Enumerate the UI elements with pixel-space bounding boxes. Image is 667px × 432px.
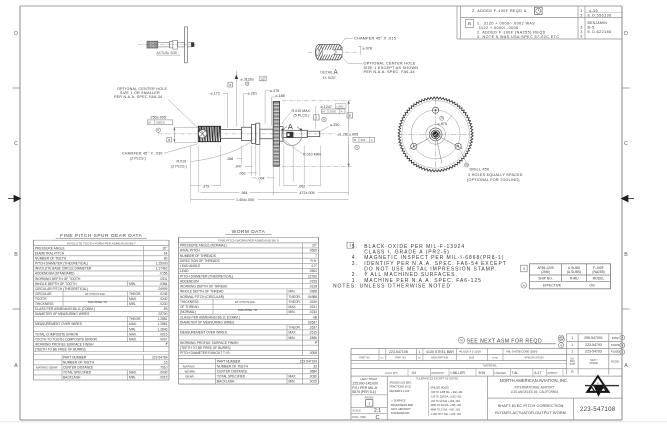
- svg-text:⌀.078: ⌀.078: [363, 47, 372, 51]
- svg-text:DIAMETER OF MEASURING WIRES: DIAMETER OF MEASURING WIRES: [35, 312, 90, 316]
- svg-text:.2596: .2596: [309, 336, 317, 340]
- svg-text:1. .3120 +.0000/-.0002 WAS: 1. .3120 +.0000/-.0002 WAS: [477, 22, 535, 26]
- svg-text:PART NUMBER: PART NUMBER: [63, 356, 87, 360]
- svg-text:.0008: .0008: [309, 351, 317, 355]
- svg-text:DWG. SIZE: DWG. SIZE: [352, 415, 366, 419]
- svg-text:MATERIAL: MATERIAL: [483, 364, 497, 368]
- svg-text:SHAFT-ELEC PITCH CORRECTION: SHAFT-ELEC PITCH CORRECTION: [498, 403, 564, 408]
- svg-text:INTERNATIONAL AIRPORT: INTERNATIONAL AIRPORT: [515, 386, 555, 390]
- svg-text:255-547001: 255-547001: [584, 336, 603, 340]
- svg-text:.0234: .0234: [309, 310, 317, 314]
- svg-text:MIN.: MIN.: [129, 302, 136, 306]
- svg-text:16: 16: [164, 361, 168, 365]
- svg-text:WORKING DEPTH OF TOOTH: WORKING DEPTH OF TOOTH: [35, 277, 81, 281]
- svg-text:33/64 TO 3/4 DIA. +.005,-.: 33/64 TO 3/4 DIA. +.005,-.001: [431, 404, 462, 407]
- svg-text:THRU: THRU: [569, 276, 579, 280]
- svg-text:C: C: [376, 415, 380, 421]
- svg-text:∜: ∜: [315, 341, 317, 345]
- svg-text:⌀.1247: ⌀.1247: [321, 105, 332, 109]
- svg-text:ADDENDUM (STANDARD): ADDENDUM (STANDARD): [35, 272, 74, 276]
- svg-text:A: A: [341, 110, 343, 114]
- svg-text:A: A: [14, 363, 18, 369]
- svg-text:.0368: .0368: [309, 290, 317, 294]
- svg-text:1: 1: [571, 336, 573, 340]
- svg-text:⌀.875: ⌀.875: [438, 122, 447, 126]
- svg-text:PITCH DIAMETER RUNOUT: PITCH DIAMETER RUNOUT T.I.R.: [180, 351, 231, 355]
- svg-text:MATING: MATING: [183, 364, 195, 368]
- svg-text:1: 1: [368, 401, 370, 405]
- svg-text:PART NO.: PART NO.: [359, 357, 371, 360]
- svg-text:MAX.: MAX.: [129, 337, 137, 341]
- svg-text:ROTARY-ACTUATOR-OUTPUT WORM: ROTARY-ACTUATOR-OUTPUT WORM: [495, 410, 566, 415]
- svg-text:.0030: .0030: [309, 375, 317, 379]
- svg-text:1.17462: 1.17462: [156, 267, 168, 271]
- svg-text:B: B: [624, 252, 628, 258]
- svg-text:SHIP: SHIP: [570, 364, 576, 366]
- svg-text:∜: ∜: [165, 342, 167, 346]
- svg-text:.2615: .2615: [309, 331, 317, 335]
- svg-text:1: 1: [571, 343, 573, 347]
- svg-text:TOTAL COMPOSITE ERROR: TOTAL COMPOSITE ERROR: [35, 332, 79, 336]
- svg-text:MAX.: MAX.: [129, 322, 137, 326]
- svg-text:.0318: .0318: [309, 285, 317, 289]
- svg-text:B: B: [229, 83, 231, 87]
- svg-text:.04: .04: [411, 371, 416, 375]
- svg-text:5.: 5.: [352, 244, 358, 250]
- svg-text:(2 PLCS.): (2 PLCS.): [171, 165, 187, 169]
- svg-text:20°: 20°: [312, 244, 318, 248]
- svg-text:MIN.: MIN.: [129, 327, 136, 331]
- svg-text:4B: 4B: [313, 315, 317, 319]
- svg-text:.0005: .0005: [329, 110, 336, 114]
- svg-text:223-54784: 223-54784: [152, 356, 168, 360]
- svg-text:WORKING DEPTH OF THREAD: WORKING DEPTH OF THREAD: [180, 285, 228, 289]
- svg-text:THEOR.: THEOR.: [289, 295, 301, 299]
- svg-text:B-5: B-5: [588, 26, 595, 30]
- svg-text:49/64 TO 1" DIA. +.007,-.0: 49/64 TO 1" DIA. +.007,-.001: [431, 409, 461, 412]
- svg-text:.3684: .3684: [309, 370, 317, 374]
- svg-text:223-54793: 223-54793: [585, 350, 602, 354]
- svg-text:.062: .062: [239, 171, 246, 175]
- svg-text:DRILLED HOLES: DRILLED HOLES: [431, 388, 450, 390]
- svg-text:.0240: .0240: [159, 297, 167, 301]
- svg-text:1: 1: [571, 350, 573, 354]
- svg-text:ANGLES ±1/2 DEG.: ANGLES ±1/2 DEG.: [390, 381, 413, 384]
- svg-text:+.0000: +.0000: [336, 106, 344, 108]
- svg-text:.04988: .04988: [307, 295, 317, 299]
- svg-text:R.015 MAX.: R.015 MAX.: [292, 109, 311, 113]
- svg-text:MAX.: MAX.: [129, 332, 137, 336]
- svg-text:D: D: [14, 31, 18, 37]
- svg-text:TOTAL SPECIFIED: TOTAL SPECIFIED: [63, 371, 92, 375]
- svg-text:PER N.A.A. SPEC. FA6-34: PER N.A.A. SPEC. FA6-34: [364, 70, 415, 74]
- svg-text:4B: 4B: [164, 307, 168, 311]
- svg-text:THICKNESS: THICKNESS: [35, 302, 54, 306]
- svg-text:PER N.A.A. SPEC FA6-34: PER N.A.A. SPEC FA6-34: [114, 95, 162, 99]
- svg-text:1: 1: [419, 350, 421, 354]
- svg-text:C: C: [14, 141, 18, 147]
- svg-text:(NORMAL): (NORMAL): [180, 310, 196, 314]
- svg-text:WORKING PROFILE SURFACE FIN: WORKING PROFILE SURFACE FINISH: [35, 342, 94, 346]
- svg-text:(NA255): (NA255): [592, 270, 604, 274]
- svg-text:ROUGHNESS PER: ROUGHNESS PER: [391, 404, 413, 407]
- svg-text:.22760: .22760: [307, 274, 317, 278]
- svg-text:CLASS PER ASME/ANSI B6.11: CLASS PER ASME/ANSI B6.11 [COMM.]: [180, 315, 240, 319]
- svg-text:ON: ON: [590, 284, 596, 288]
- svg-text:⌀.375: ⌀.375: [270, 89, 279, 93]
- svg-text:N: N: [523, 283, 525, 287]
- svg-text:.0230: .0230: [159, 302, 167, 306]
- svg-text:B: B: [168, 138, 170, 142]
- svg-text:MATING GEAR: MATING GEAR: [36, 366, 58, 370]
- svg-text:(OPTIONAL FOR TOOLING): (OPTIONAL FOR TOOLING): [467, 178, 520, 182]
- svg-text:CLASS PER ASME/ANSI B6.11: CLASS PER ASME/ANSI B6.11 [COMM.]: [35, 307, 95, 311]
- svg-text:NO.: NO.: [570, 358, 574, 360]
- svg-text:MACHINE TO: MACHINE TO: [88, 300, 108, 304]
- svg-text:C: C: [624, 141, 628, 147]
- svg-text:MAX.: MAX.: [289, 305, 297, 309]
- svg-text:PRESSURE ANGLE (NORMAL): PRESSURE ANGLE (NORMAL): [180, 244, 227, 248]
- svg-text:6-17: 6-17: [535, 371, 542, 375]
- svg-text:NAT'L AIRCRAFT: NAT'L AIRCRAFT: [391, 408, 411, 411]
- svg-text:5/16: 5/16: [479, 371, 486, 375]
- svg-text:20°: 20°: [163, 246, 169, 250]
- svg-text:MIL-S-6758 COND (D)(N): MIL-S-6758 COND (D)(N): [507, 350, 538, 354]
- svg-text:MIN.: MIN.: [129, 282, 136, 286]
- svg-text:R.010 MAX.: R.010 MAX.: [303, 153, 322, 157]
- svg-text:4.2°: 4.2°: [311, 264, 318, 268]
- svg-text:3.: 3.: [352, 261, 358, 267]
- svg-text:CHAMFER 45° X .015: CHAMFER 45° X .015: [354, 37, 396, 41]
- svg-text:THEOR.: THEOR.: [289, 326, 301, 330]
- svg-text:.0015: .0015: [159, 376, 167, 380]
- svg-text:.7510: .7510: [159, 366, 167, 370]
- svg-text:NUMBER OF TEETH: NUMBER OF TEETH: [35, 257, 67, 261]
- svg-text:CIRCULAR: CIRCULAR: [35, 292, 52, 296]
- svg-text:125,000-145,000: 125,000-145,000: [352, 381, 378, 385]
- svg-text:LOS ANGELES 45, CALIFORNIA: LOS ANGELES 45, CALIFORNIA: [511, 390, 559, 394]
- svg-text:.984: .984: [241, 191, 248, 195]
- svg-text:NOTES: UNLESS OTHERWISE NOTED: NOTES: UNLESS OTHERWISE NOTED: [333, 284, 451, 290]
- svg-text:3: 3: [580, 9, 583, 13]
- svg-text:3: 3: [580, 14, 583, 18]
- svg-text:SPECIFICATION: SPECIFICATION: [525, 357, 544, 360]
- svg-text:.0245: .0245: [159, 292, 167, 296]
- svg-text:⌀.188: ⌀.188: [275, 94, 284, 98]
- svg-text:.094: .094: [258, 176, 265, 180]
- svg-text:BENJAMIN: BENJAMIN: [588, 21, 608, 25]
- svg-text:N: N: [466, 164, 468, 167]
- svg-text:THEOR.: THEOR.: [129, 317, 141, 321]
- svg-text:THICKNESS: THICKNESS: [180, 300, 199, 304]
- svg-text:AT PITCH DIA.: AT PITCH DIA.: [85, 292, 106, 296]
- svg-text:.234 TO 1/2 DIA. +.004,-.0: .234 TO 1/2 DIA. +.004,-.001: [431, 400, 461, 403]
- svg-text:.0005 A: .0005 A: [156, 121, 165, 125]
- svg-text:BACKLASH: BACKLASH: [63, 376, 81, 380]
- svg-text:F100D: F100D: [611, 350, 621, 354]
- svg-text:DETAIL: DETAIL: [320, 71, 333, 75]
- svg-text:TOLERANCES EXCEPT AS NOTED: TOLERANCES EXCEPT AS NOTED: [416, 376, 459, 380]
- svg-text:⌀.172: ⌀.172: [211, 92, 220, 96]
- svg-text:CHECKER: CHECKER: [494, 372, 506, 375]
- svg-text:⌀1.281±.005: ⌀1.281±.005: [338, 132, 359, 136]
- svg-text:LEAD: LEAD: [180, 269, 189, 273]
- svg-text:#1-5/16 X 1-11/16: #1-5/16 X 1-11/16: [460, 350, 482, 354]
- svg-text:NORTH AMERICAN AVIATION, IN: NORTH AMERICAN AVIATION, INC.: [500, 378, 568, 383]
- svg-text:3. NOTE 5 WAS USA SPEC 57: 3. NOTE 5 WAS USA SPEC 57-02C ETC: [477, 35, 560, 39]
- svg-text:.02700: .02700: [158, 312, 168, 316]
- svg-text:⌀.3120±: ⌀.3120±: [241, 77, 254, 81]
- svg-text:CHAMFER 45° X .030: CHAMFER 45° X .030: [122, 151, 163, 155]
- svg-text:WORM: WORM: [185, 369, 196, 373]
- svg-text:NO.: NO.: [418, 357, 422, 359]
- svg-text:P.S.I PER MIL-H: P.S.I PER MIL-H: [352, 386, 378, 390]
- svg-text:2. ADDED F-100F REQD &: 2. ADDED F-100F REQD &: [472, 9, 527, 13]
- svg-text:223-547108: 223-547108: [389, 350, 408, 354]
- svg-text:.472±.005: .472±.005: [299, 191, 315, 195]
- svg-text:WORM DATA: WORM DATA: [232, 229, 266, 235]
- svg-text:N: N: [323, 117, 325, 121]
- svg-text:(2M6): (2M6): [541, 270, 550, 274]
- svg-text:E.O.622186: E.O.622186: [588, 30, 612, 34]
- svg-text:CIRCULAR PITCH (THEORETICAL): CIRCULAR PITCH (THEORETICAL): [35, 287, 88, 291]
- svg-text:1-1/64 TO 2" DIA. +.010,-.: 1-1/64 TO 2" DIA. +.010,-.001: [431, 413, 462, 416]
- svg-text:32: 32: [313, 364, 317, 368]
- svg-text:ACTUAL SIZE: ACTUAL SIZE: [157, 51, 179, 55]
- svg-text:MAX.: MAX.: [289, 331, 297, 335]
- svg-text:PITCH DIAMETER (THEORETICAL): PITCH DIAMETER (THEORETICAL): [35, 262, 88, 266]
- svg-text:1.404±.005: 1.404±.005: [236, 198, 254, 202]
- svg-text:3: 3: [580, 30, 583, 34]
- svg-text:(TEETH TO BE FREE OF BURR: (TEETH TO BE FREE OF BURRS): [35, 347, 86, 351]
- svg-text:.0500: .0500: [309, 269, 317, 273]
- svg-text:1.2861: 1.2861: [158, 322, 168, 326]
- svg-text:DIRECTION OF THREADS: DIRECTION OF THREADS: [180, 259, 220, 263]
- svg-text:223-547108: 223-547108: [580, 406, 616, 413]
- svg-text:A: A: [371, 138, 373, 142]
- svg-text:4X SIZE: 4X SIZE: [322, 76, 336, 80]
- svg-text:SIZE: SIZE: [469, 357, 475, 360]
- svg-text:2. ADDED F-100F (NA255) RE: 2. ADDED F-100F (NA255) REQD: [477, 30, 546, 34]
- svg-text:A: A: [624, 363, 628, 369]
- svg-text:N: N: [441, 117, 443, 120]
- svg-text:F00F: F00F: [612, 336, 619, 340]
- svg-text:N: N: [560, 336, 562, 340]
- svg-text:MIN.: MIN.: [289, 380, 296, 384]
- svg-text:CENTER DISTANCE: CENTER DISTANCE: [217, 370, 248, 374]
- svg-text:.047: .047: [235, 165, 242, 169]
- svg-text:THEOR.: THEOR.: [289, 300, 301, 304]
- svg-text:1.25000: 1.25000: [156, 262, 168, 266]
- svg-text:B: B: [349, 113, 351, 117]
- svg-text:1.2843: 1.2843: [158, 327, 168, 331]
- svg-text:1.2881: 1.2881: [158, 317, 168, 321]
- svg-text:NUMBER OF THREADS: NUMBER OF THREADS: [180, 254, 217, 258]
- svg-text:4-30: 4-30: [589, 9, 598, 13]
- svg-text:WORKING PROFILE SURFACE FIN: WORKING PROFILE SURFACE FINISH: [180, 341, 239, 345]
- svg-text:T.AL: T.AL: [512, 371, 519, 375]
- svg-text:MIN.: MIN.: [289, 310, 296, 314]
- svg-text:DECIMALS ±.010: DECIMALS ±.010: [390, 390, 410, 393]
- svg-text:.0159: .0159: [309, 279, 317, 283]
- svg-text:.3122 +.0000/-.0005: .3122 +.0000/-.0005: [477, 26, 519, 30]
- svg-text:.04909: .04909: [158, 287, 168, 291]
- svg-text:.02667: .02667: [307, 320, 317, 324]
- svg-text:MIN.: MIN.: [289, 290, 296, 294]
- svg-text:AT PITCH DIA.: AT PITCH DIA.: [235, 300, 256, 304]
- svg-text:I-MILLER: I-MILLER: [451, 371, 466, 375]
- svg-text:PART NO.: PART NO.: [395, 357, 407, 360]
- svg-text:N: N: [356, 145, 358, 149]
- svg-text:MIN.: MIN.: [289, 336, 296, 340]
- svg-text:.0015: .0015: [309, 380, 317, 384]
- svg-text:DIAMETRAL PITCH: DIAMETRAL PITCH: [35, 252, 65, 256]
- svg-text:FINE PITCH WORM PER ASME/A: FINE PITCH WORM PER ASME/ANSI B6.9: [218, 238, 278, 242]
- svg-text:4: 4: [523, 267, 525, 271]
- svg-text:E.O.556136: E.O.556136: [588, 14, 612, 18]
- svg-text:NUMBER OF TEETH: NUMBER OF TEETH: [217, 364, 249, 368]
- svg-text:(& SUBS): (& SUBS): [567, 270, 581, 274]
- svg-text:HEAT TREAT: HEAT TREAT: [361, 377, 378, 381]
- svg-text:.136 TO .228 DIA. +.003,-.: .136 TO .228 DIA. +.003,-.001: [431, 395, 462, 398]
- svg-text:MEASUREMENT OVER WIRES: MEASUREMENT OVER WIRES: [180, 331, 228, 335]
- svg-text:CALC WT.: CALC WT.: [385, 371, 398, 375]
- svg-text:N: N: [560, 343, 562, 347]
- svg-text:DRAWN BY: DRAWN BY: [432, 372, 445, 375]
- svg-text:B: B: [14, 252, 18, 258]
- svg-text:NORMAL PITCH (CIRCULAR): NORMAL PITCH (CIRCULAR): [180, 295, 224, 299]
- svg-text:BACKLASH: BACKLASH: [217, 380, 235, 384]
- svg-text:THEOR.: THEOR.: [129, 292, 141, 296]
- svg-text:R.010: R.010: [177, 160, 187, 164]
- svg-text:TOOTH TO TOOTH COMPOSITE E: TOOTH TO TOOTH COMPOSITE ERROR: [35, 337, 97, 341]
- svg-text:.0500: .0500: [309, 249, 317, 253]
- svg-text:EFFECTIVE: EFFECTIVE: [543, 284, 562, 288]
- svg-text:MAX.: MAX.: [129, 297, 137, 301]
- svg-text:SHIP NO.: SHIP NO.: [538, 276, 552, 280]
- svg-text:NUMBER OF TEETH: NUMBER OF TEETH: [63, 361, 95, 365]
- svg-text:F100F: F100F: [611, 343, 620, 347]
- svg-text:APPROV: APPROV: [548, 372, 558, 375]
- svg-text:(5 PLCS.): (5 PLCS.): [294, 114, 310, 118]
- svg-text:B: B: [468, 21, 471, 26]
- svg-text:.188: .188: [226, 157, 233, 161]
- svg-text:GEAR: GEAR: [185, 375, 195, 379]
- svg-text:⌀.261: ⌀.261: [248, 92, 257, 96]
- svg-text:.0364: .0364: [159, 282, 167, 286]
- svg-text:MODEL: MODEL: [593, 276, 605, 280]
- svg-text:STANDARD #30: STANDARD #30: [391, 412, 410, 415]
- svg-text:MAX.: MAX.: [129, 371, 137, 375]
- svg-text:4130 STEEL BAR: 4130 STEEL BAR: [426, 350, 454, 354]
- svg-text:MACHINE TO: MACHINE TO: [238, 308, 258, 312]
- svg-text:.0007: .0007: [159, 337, 167, 341]
- svg-text:FINISH: FINISH: [365, 395, 374, 399]
- svg-text:FRACTIONS ±1/32: FRACTIONS ±1/32: [390, 386, 412, 389]
- svg-text:3 HOLES EQUALLY SPACED: 3 HOLES EQUALLY SPACED: [468, 173, 523, 177]
- svg-text:.0241: .0241: [309, 305, 317, 309]
- svg-text:80: 80: [164, 257, 168, 261]
- svg-text:WHOLE DEPTH OF TOOTH: WHOLE DEPTH OF TOOTH: [35, 282, 77, 286]
- svg-text:LEAD ANGLE: LEAD ANGLE: [180, 264, 201, 268]
- svg-text:64: 64: [164, 252, 168, 256]
- svg-text:MIN.: MIN.: [129, 376, 136, 380]
- svg-text:.0311: .0311: [160, 277, 168, 281]
- svg-text:PRESSURE ANGLE: PRESSURE ANGLE: [35, 246, 65, 250]
- svg-text:TOOTH: TOOTH: [35, 297, 47, 301]
- svg-text:N: N: [157, 128, 159, 132]
- svg-text:(2 PLCS.): (2 PLCS.): [130, 156, 146, 160]
- svg-text:.2637: .2637: [309, 326, 317, 330]
- svg-text:ADDENDUM: ADDENDUM: [180, 279, 199, 283]
- svg-text:D: D: [624, 31, 628, 37]
- svg-text:DRILL #56: DRILL #56: [470, 168, 490, 172]
- svg-text:WHOLE DEPTH OF THREAD: WHOLE DEPTH OF THREAD: [180, 290, 224, 294]
- svg-text:INVOLUTE TOOTH FORM PER AS: INVOLUTE TOOTH FORM PER ASME/ANSI B6.7: [67, 241, 136, 245]
- svg-text:NO.: NO.: [381, 357, 385, 359]
- svg-text:(TEETH TO BE FREE OF BURR: (TEETH TO BE FREE OF BURRS): [180, 346, 231, 350]
- svg-text:.0015: .0015: [159, 332, 167, 336]
- svg-text:PART NUMBER: PART NUMBER: [217, 359, 241, 363]
- svg-text:INVOLUTE BASE CIRCLE DIAMET: INVOLUTE BASE CIRCLE DIAMETER: [35, 267, 92, 271]
- svg-text:REQ: REQ: [570, 361, 575, 363]
- svg-text:3: 3: [580, 26, 583, 30]
- svg-text:DIAMETER OF MEASURING WIRES: DIAMETER OF MEASURING WIRES: [180, 320, 235, 324]
- svg-text:.0030: .0030: [159, 371, 167, 375]
- svg-text:.250±.005: .250±.005: [150, 115, 166, 119]
- svg-text:MODEL: MODEL: [611, 361, 621, 364]
- svg-text:OF THREAD: OF THREAD: [180, 305, 199, 309]
- svg-text:✓ SURFACE: ✓ SURFACE: [391, 400, 406, 403]
- svg-text:SCALE: SCALE: [352, 408, 361, 412]
- svg-text:223-54793: 223-54793: [585, 343, 602, 347]
- svg-text:MAX.: MAX.: [289, 375, 297, 379]
- svg-text:TOTAL SPECIFIED: TOTAL SPECIFIED: [217, 375, 246, 379]
- svg-text:AXIAL PITCH: AXIAL PITCH: [180, 249, 200, 253]
- svg-text:.0156: .0156: [159, 272, 167, 276]
- svg-text:FINE PITCH SPUR GEAR DATA: FINE PITCH SPUR GEAR DATA: [60, 233, 142, 239]
- svg-text:-.0005: -.0005: [260, 80, 265, 82]
- svg-text:PITCH DIAMETER (THEORETICAL): PITCH DIAMETER (THEORETICAL): [180, 274, 233, 278]
- svg-text:CENTER DISTANCE: CENTER DISTANCE: [63, 366, 94, 370]
- svg-text:7: 7: [315, 254, 317, 258]
- svg-text:6875 (PER 5-1): 6875 (PER 5-1): [352, 390, 376, 394]
- svg-text:ASSEM: ASSEM: [589, 362, 598, 365]
- svg-text:3: 3: [580, 34, 583, 38]
- svg-text:DESCRIPTION: DESCRIPTION: [431, 357, 448, 360]
- svg-text:MEASUREMENT OVER WIRES: MEASUREMENT OVER WIRES: [35, 322, 83, 326]
- svg-text:⌀.250: ⌀.250: [330, 123, 339, 127]
- svg-text:.005: .005: [360, 138, 366, 142]
- svg-text:R.H.: R.H.: [311, 259, 318, 263]
- svg-text:.040 TO .1285 DIA. +.002,-: .040 TO .1285 DIA. +.002,-.001: [431, 391, 464, 394]
- svg-text:ZONE: ZONE: [492, 358, 499, 360]
- svg-text:.0249: .0249: [309, 300, 317, 304]
- svg-text:.062: .062: [298, 184, 305, 188]
- svg-text:.375: .375: [202, 184, 209, 188]
